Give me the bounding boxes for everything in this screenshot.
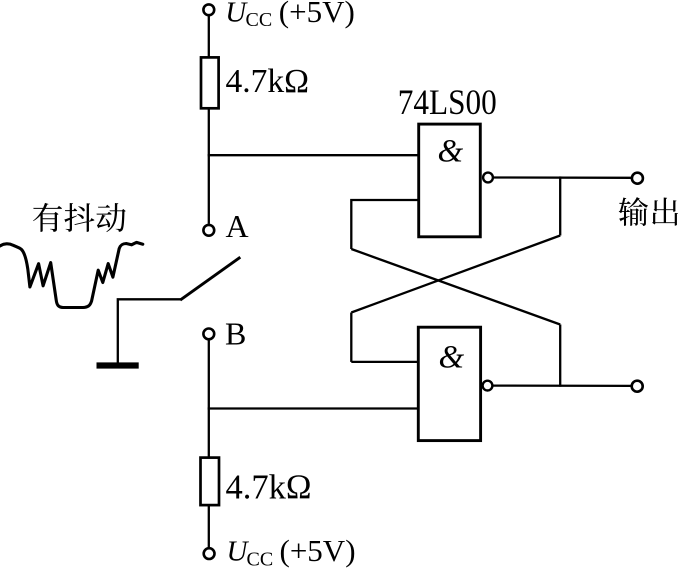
svg-text:CC: CC: [247, 548, 274, 570]
wire R2 to Ucc bottom: [208, 505, 210, 547]
NAND gate U1B box: [418, 327, 480, 440]
svg-text:4.7kΩ: 4.7kΩ: [226, 63, 310, 100]
svg-text:&: &: [439, 340, 465, 376]
wire R1 to node A: [208, 108, 210, 224]
ground: [97, 362, 139, 368]
svg-text:(+5V): (+5V): [279, 0, 355, 29]
label 输出 (output): [619, 197, 678, 226]
wire node B down to R2: [208, 340, 210, 457]
wire U1B output to bottom output terminal: [493, 384, 632, 387]
svg-text:A: A: [226, 208, 249, 244]
terminal output top: [632, 173, 643, 184]
U1B output inversion bubble: [483, 381, 493, 391]
svg-text:74LS00: 74LS00: [398, 82, 497, 122]
wire U1B input 1 stub: [351, 361, 419, 363]
wire switch pole horizontal: [118, 299, 181, 362]
wire branch down from U1A output: [559, 176, 561, 235]
svg-text:CC: CC: [246, 9, 273, 31]
wire U1A output to top output terminal: [493, 176, 631, 179]
svg-text:&: &: [438, 134, 464, 170]
U1A output inversion bubble: [483, 173, 493, 183]
bounce waveform: [0, 242, 143, 307]
svg-text:4.7kΩ: 4.7kΩ: [226, 469, 312, 507]
wire junction to gate U1A input 1: [208, 154, 420, 156]
NAND gate U1A box: [419, 124, 481, 237]
terminal node B: [203, 329, 214, 340]
terminal Ucc top: [203, 4, 214, 15]
wire feedback diagonal from U1A output branch to U1B input 1: [351, 236, 560, 313]
svg-text:(+5V): (+5V): [280, 533, 356, 568]
label 有抖动 (has bounce): [33, 203, 126, 232]
wire feedback diagonal from U1B output branch to U1A input 2: [351, 249, 560, 325]
terminal output bottom: [632, 381, 643, 392]
terminal node A: [203, 225, 214, 236]
terminal Ucc bottom: [204, 548, 215, 559]
wire junction to gate U1B input 2: [208, 407, 420, 409]
resistor R1 4.7k: [201, 57, 219, 108]
wire Ucc top to R1: [208, 16, 210, 58]
wire U1A input 2 stub: [351, 200, 419, 249]
wire left vertical down to U1B input 1: [350, 313, 352, 362]
svg-text:B: B: [225, 315, 246, 351]
wire right vertical down to U1B output wire: [559, 325, 561, 387]
switch arm S1: [180, 257, 240, 300]
resistor R2 4.7k: [201, 458, 220, 506]
